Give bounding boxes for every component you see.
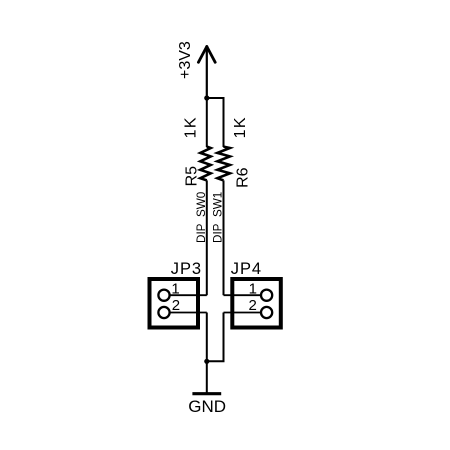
svg-text:DIP_SW0: DIP_SW0 — [195, 191, 208, 243]
wire R5 to JP3 pin1 (net DIP_SW0) — [206, 180, 208, 295]
wire junction to right branch — [207, 98, 224, 147]
resistor R6 — [217, 147, 230, 181]
power symbol +3V3 arrow — [198, 47, 215, 63]
svg-text:GND: GND — [188, 397, 226, 416]
JP3 pin 2 line — [170, 312, 207, 314]
svg-text:+3V3: +3V3 — [177, 41, 194, 79]
wire JP3 pin2 down to ground junction — [206, 313, 208, 362]
JP4 pin 1 line — [224, 294, 261, 296]
svg-text:1K: 1K — [183, 116, 200, 138]
wire from +3V3 arrow to junction — [206, 47, 208, 99]
resistor R5 — [200, 147, 210, 181]
svg-text:2: 2 — [172, 297, 180, 314]
JP3 pin 1 circle — [158, 290, 169, 301]
JP3 pin 2 circle — [158, 307, 169, 318]
wire JP4 pin2 down and left to ground junction — [207, 313, 224, 362]
svg-text:1: 1 — [249, 281, 257, 298]
JP4 pin 2 line — [224, 312, 261, 314]
connector JP4 body — [232, 279, 280, 328]
svg-text:DIP_SW1: DIP_SW1 — [212, 192, 225, 243]
svg-text:R6: R6 — [234, 167, 251, 188]
node junction top — [204, 95, 209, 100]
ground symbol bar — [192, 392, 221, 395]
node junction bottom — [204, 359, 209, 364]
wire junction down to R5 — [206, 98, 208, 147]
svg-text:2: 2 — [249, 297, 257, 314]
wire R6 to JP4 pin1 (net DIP_SW1) — [223, 180, 225, 295]
connector JP3 body — [150, 279, 199, 328]
JP4 pin 1 circle — [261, 290, 272, 301]
svg-text:1K: 1K — [232, 116, 249, 138]
svg-text:JP3: JP3 — [171, 260, 202, 278]
JP4 pin 2 circle — [261, 307, 272, 318]
JP3 pin 1 line — [170, 294, 207, 296]
wire junction to GND symbol — [206, 361, 208, 393]
svg-text:1: 1 — [171, 281, 179, 298]
svg-text:JP4: JP4 — [231, 260, 262, 278]
svg-text:R5: R5 — [183, 166, 200, 187]
